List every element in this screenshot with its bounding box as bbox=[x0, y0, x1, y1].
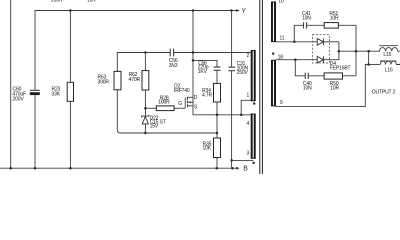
diode D4b bbox=[317, 56, 339, 63]
wire top rail bbox=[35, 11, 232, 91]
wire C40 branch riser bbox=[295, 60, 305, 76]
svg-text:390R: 390R bbox=[98, 79, 110, 85]
wire output row bbox=[339, 50, 380, 52]
node bus left rail bbox=[9, 167, 12, 170]
node pin18 C40 branch bbox=[294, 58, 297, 61]
resistor R28 bbox=[145, 95, 185, 110]
capacitor C31 bbox=[228, 11, 248, 169]
node cathode output bbox=[338, 50, 341, 53]
wire C41 branch riser bbox=[294, 25, 303, 42]
wire pin18 row bbox=[276, 59, 318, 61]
wire R35 column bbox=[216, 115, 218, 138]
svg-text:2: 2 bbox=[247, 53, 250, 59]
resistor R51 bbox=[324, 11, 356, 28]
node drain C55 branch bbox=[192, 59, 195, 62]
transformer primary winding 2-1 bbox=[247, 50, 256, 101]
capacitor C40 bbox=[303, 73, 324, 92]
node bus C31 bbox=[231, 167, 234, 170]
svg-text:D: D bbox=[194, 95, 198, 101]
capacitor C55 bbox=[198, 60, 221, 74]
svg-text:1: 1 bbox=[247, 93, 250, 99]
wire cathode bus bbox=[338, 42, 340, 60]
node source pin1 riser bbox=[240, 114, 243, 117]
diode D4a bbox=[317, 39, 339, 46]
wire bottom bus bbox=[0, 167, 237, 169]
node bus C60 bbox=[34, 167, 37, 170]
wire pin11 row bbox=[276, 41, 318, 43]
wire left rail bbox=[10, 0, 12, 168]
svg-text:4.7R: 4.7R bbox=[202, 92, 213, 98]
wire y133 to R35 column bbox=[145, 132, 217, 134]
svg-text:9: 9 bbox=[280, 100, 283, 106]
capacitor C41 bbox=[302, 11, 324, 29]
node top rail R23 junction bbox=[69, 9, 72, 12]
resistor R35 bbox=[203, 138, 221, 168]
node L16 bbox=[367, 63, 370, 66]
svg-text:470R: 470R bbox=[129, 77, 141, 83]
svg-text:4: 4 bbox=[247, 121, 250, 127]
node bus R35 bbox=[215, 167, 218, 170]
wire C60 to bus bbox=[34, 95, 36, 168]
resistor R62 bbox=[129, 53, 149, 117]
inductor L15 bbox=[379, 46, 400, 58]
node bus R23 bbox=[69, 167, 72, 170]
node zener bottom bbox=[144, 132, 147, 135]
svg-text:15V: 15V bbox=[150, 124, 159, 130]
wire snubber row y52.5 bbox=[117, 53, 170, 72]
svg-text:3: 3 bbox=[247, 150, 250, 156]
wire R63 bottom to y133 bbox=[117, 90, 145, 133]
transformer core bbox=[260, 0, 263, 174]
svg-text:FEP16BT: FEP16BT bbox=[330, 65, 351, 71]
svg-text:G: G bbox=[178, 101, 182, 107]
primary phase dot 3 bbox=[252, 162, 254, 164]
wire source row y114.8 bbox=[193, 106, 251, 115]
svg-text:10R: 10R bbox=[330, 16, 339, 22]
node R62 top bbox=[144, 51, 147, 54]
svg-text:10N: 10N bbox=[302, 16, 311, 22]
node C31 pin3 row bbox=[230, 159, 233, 162]
node source R34 column bbox=[216, 114, 219, 117]
wire drain line bbox=[192, 11, 194, 98]
svg-text:10R: 10R bbox=[330, 85, 339, 91]
svg-text:Y: Y bbox=[241, 8, 246, 15]
svg-text:250V: 250V bbox=[237, 70, 249, 76]
inductor L16 bbox=[369, 61, 400, 74]
svg-text:10K: 10K bbox=[203, 146, 212, 152]
node gate row R62 bbox=[144, 107, 147, 110]
svg-text:11: 11 bbox=[280, 36, 285, 42]
svg-text:10: 10 bbox=[278, 0, 284, 4]
svg-text:10R: 10R bbox=[87, 0, 96, 3]
diode box D4 bbox=[312, 35, 350, 72]
resistor R23 bbox=[52, 11, 74, 169]
svg-text:L15: L15 bbox=[383, 52, 391, 58]
wire pin3 row bbox=[232, 159, 254, 161]
wire R51 riser bbox=[355, 25, 357, 76]
svg-text:B: B bbox=[243, 165, 248, 172]
transformer secondary winding 10-11 bbox=[271, 0, 285, 42]
wire L16 riser bbox=[368, 51, 370, 64]
svg-text:OUTPUT 2: OUTPUT 2 bbox=[372, 89, 396, 95]
resistor R63 bbox=[98, 71, 122, 89]
transformer primary winding 4-3 bbox=[247, 114, 256, 159]
node top rail drain junction bbox=[192, 9, 195, 12]
svg-text:100R: 100R bbox=[158, 99, 170, 105]
svg-text:IRF740: IRF740 bbox=[174, 88, 190, 94]
wire pin9 return bbox=[276, 65, 369, 107]
transistor D2 IRF740 bbox=[174, 84, 198, 111]
svg-text:1KV: 1KV bbox=[198, 69, 208, 75]
resistor R34 bbox=[202, 70, 221, 115]
node y133 R35 bbox=[216, 132, 219, 135]
node output R51 riser bbox=[355, 50, 358, 53]
svg-text:L16: L16 bbox=[385, 68, 393, 74]
capacitor C56 bbox=[169, 49, 178, 69]
wire pin1 riser bbox=[241, 100, 251, 115]
capacitor C60 bbox=[13, 87, 40, 103]
wire C55 branch bbox=[193, 60, 217, 66]
resistor R50 bbox=[324, 73, 356, 92]
svg-text:10N: 10N bbox=[303, 85, 312, 91]
svg-text:33K: 33K bbox=[52, 92, 61, 98]
primary phase dot 1 bbox=[253, 102, 255, 104]
node top rail Y junction bbox=[230, 9, 232, 11]
svg-text:3N3: 3N3 bbox=[169, 63, 178, 69]
arrow B bbox=[236, 165, 248, 172]
transformer secondary winding 18-9 bbox=[271, 55, 283, 107]
node pin11 C41 branch bbox=[293, 41, 296, 44]
svg-text:200V: 200V bbox=[13, 96, 25, 102]
node output L16 riser bbox=[367, 50, 370, 53]
node drain snubber row bbox=[192, 51, 195, 54]
svg-text:200R: 200R bbox=[51, 0, 63, 3]
secondary phase dot bbox=[272, 52, 274, 54]
arrow Y bbox=[232, 8, 247, 15]
zener D22 bbox=[142, 115, 166, 133]
